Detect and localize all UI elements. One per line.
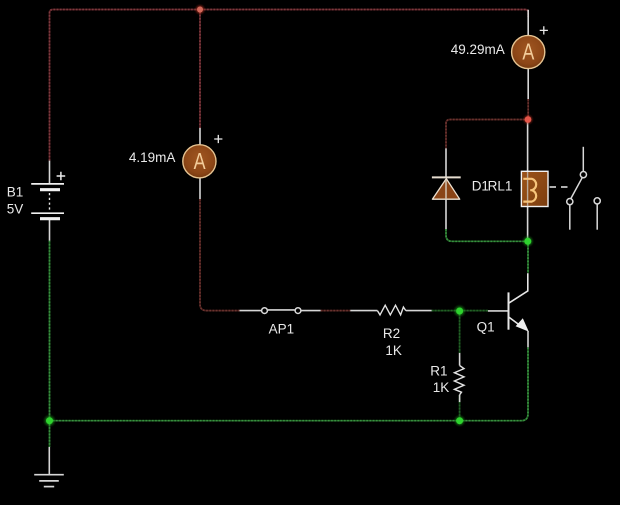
svg-text:R1: R1 (430, 364, 447, 379)
svg-text:RL1: RL1 (488, 179, 513, 194)
relay RL1 coil (521, 171, 548, 206)
wire: green from R2 to base node and to R1 (432, 311, 488, 421)
wire: R2 leads (350, 310, 431, 312)
wire: relay RL1 coil leads (527, 121, 529, 239)
wire: ammeter A1 leads (527, 10, 529, 99)
switch AP1 (262, 308, 301, 314)
wire: red from ammeter A2 bottom to switch AP1 (200, 199, 240, 311)
node: ammeter/diode/relay junction (red) (522, 114, 534, 126)
wire: Q1 base lead (488, 310, 508, 312)
transistor Q1 (509, 273, 528, 329)
wire: switch common stub (582, 147, 584, 172)
node: top rail junction (red) (194, 4, 206, 16)
battery + polarity mark (57, 172, 66, 181)
svg-text:B1: B1 (7, 184, 24, 199)
resistor R1 (454, 366, 464, 395)
wire: red drop from top-rail junction to ammeter A2 (4.19mA) (199, 10, 201, 129)
wire: red net top rail from battery + to ammeters (50, 10, 529, 161)
wire: green net from battery - to ground and along bottom to emitter (50, 241, 529, 447)
svg-text:49.29mA: 49.29mA (451, 42, 505, 57)
svg-text:A: A (194, 149, 206, 175)
wire: R1 leads (459, 353, 461, 402)
node: relay bottom / collector (green) (521, 235, 534, 248)
relay mechanical link dashes (550, 186, 568, 188)
svg-text:D1: D1 (472, 179, 489, 194)
diode D1 (432, 177, 461, 199)
switch contact circles (580, 172, 586, 178)
svg-text:A: A (522, 40, 534, 66)
wire: ground stem (48, 447, 50, 474)
switch lever (571, 178, 582, 199)
wire: diode D1 leads (445, 148, 447, 229)
ammeter A2 + polarity mark (214, 135, 222, 143)
svg-text:1K: 1K (385, 343, 402, 358)
battery B1 (31, 184, 64, 219)
wire: red from ammeter A1 bottom to node, and branch to diode D1 (446, 99, 528, 148)
wire: green from diode bottom to relay bottom node and transistor collector (446, 229, 528, 273)
wire: red between AP1 and R2 (321, 310, 351, 312)
node: base/R1 junction (green) (453, 304, 467, 318)
ground symbol (34, 475, 64, 487)
svg-text:1K: 1K (433, 380, 450, 395)
svg-text:4.19mA: 4.19mA (129, 150, 176, 165)
ammeter A1 + polarity mark (540, 26, 548, 34)
wire: Q1 emitter lead (527, 331, 529, 347)
wire: switch NC stub (596, 204, 598, 230)
wire: battery leads (49, 161, 51, 241)
wire: switch NO stub (569, 205, 571, 230)
transistor Q1 emitter arrow (516, 318, 529, 331)
resistor R2 (377, 305, 405, 315)
relay switch contacts SW (567, 147, 601, 230)
ammeter A2 (4.19mA) (183, 145, 216, 178)
wire: AP1 leads and contact bar (240, 309, 321, 312)
node: ground junction (green) (43, 414, 57, 428)
wire: ammeter A2 leads (199, 128, 201, 199)
ammeter A1 (49.29mA) (512, 35, 545, 68)
node: R1 bottom junction (green) (453, 414, 466, 427)
svg-text:R2: R2 (383, 326, 400, 341)
component lead stubs (gray) (49, 10, 528, 474)
svg-text:5V: 5V (7, 201, 24, 216)
svg-text:AP1: AP1 (269, 322, 295, 337)
svg-text:Q1: Q1 (477, 320, 495, 335)
